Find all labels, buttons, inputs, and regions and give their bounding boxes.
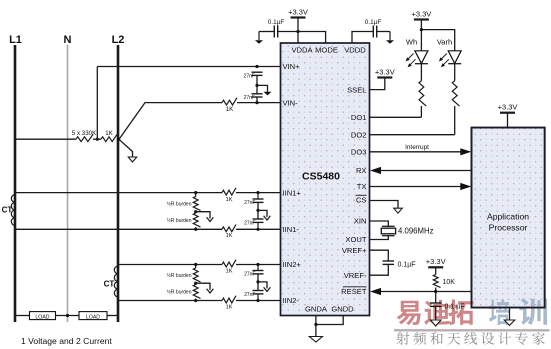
wire burden mid ground — [196, 212, 210, 218]
wire VREF- — [370, 264, 389, 275]
wire LED supply drop — [420, 20, 422, 51]
wire processor supply — [507, 113, 509, 128]
wire rail to MODE — [278, 32, 326, 44]
svg-text:0.1µF: 0.1µF — [398, 261, 416, 268]
wire supply to R6 — [435, 267, 437, 274]
svg-text:½R burden: ½R burden — [167, 217, 192, 224]
resistor R5 Varh — [452, 81, 459, 106]
svg-text:Application: Application — [487, 212, 529, 222]
wire LOAD1 to N — [56, 315, 80, 317]
wire R6 to RESET net — [435, 288, 437, 292]
svg-text:CT: CT — [2, 206, 13, 215]
wire cap mid to ground — [257, 85, 268, 91]
ground CS — [394, 208, 403, 213]
power +3.3V processor — [500, 112, 515, 114]
svg-text:1K: 1K — [226, 106, 234, 113]
wire R4 to DO1 — [420, 106, 422, 117]
power +3.3V main — [291, 16, 306, 18]
resistor R12 1K IIN2- — [222, 296, 236, 303]
resistor R13 half burden — [195, 265, 197, 269]
wire L1 to LOAD1 — [15, 315, 30, 317]
svg-text:+3.3V: +3.3V — [426, 257, 446, 266]
wire C4 to ground — [377, 31, 390, 33]
capacitor C9 27nF IIN2+ — [257, 265, 259, 271]
svg-text:Varh: Varh — [437, 38, 452, 47]
wire IIN1+ a — [15, 192, 222, 194]
svg-text:1K: 1K — [226, 197, 233, 203]
wire CS to ground — [370, 201, 399, 209]
resistor R7 1K IIN1+ — [222, 188, 236, 195]
wire IIN2- a — [118, 300, 222, 302]
wire RX — [380, 170, 472, 172]
resistor R6 10K — [433, 275, 440, 288]
wire L2 diagonal to ground — [120, 140, 133, 157]
svg-text:GNDD: GNDD — [331, 305, 354, 314]
svg-text:N: N — [64, 34, 72, 46]
wire processor ground stub — [509, 308, 511, 321]
node cap3 top — [256, 263, 259, 266]
node burden2 top — [194, 263, 197, 266]
node VIN cap mid — [255, 84, 258, 87]
svg-text:IIN2+: IIN2+ — [283, 260, 302, 269]
wire C2 to VIN- node — [256, 97, 258, 103]
svg-text:27nF: 27nF — [244, 74, 255, 80]
svg-text:CS: CS — [356, 196, 367, 205]
wire LOAD2 to L2 — [107, 315, 118, 317]
wire IIN2+ a — [118, 264, 222, 266]
CT1 current transformer coil — [11, 195, 15, 203]
node burden mid — [194, 210, 197, 213]
svg-text:CT: CT — [104, 280, 115, 289]
svg-text:+3.3V: +3.3V — [288, 7, 308, 16]
svg-text:1K: 1K — [226, 268, 233, 274]
power +3.3V LEDs — [414, 18, 429, 20]
svg-text:IIN2-: IIN2- — [283, 296, 300, 305]
svg-text:DO3: DO3 — [351, 148, 367, 157]
load block LOAD1 — [30, 312, 56, 320]
svg-text:DO1: DO1 — [351, 113, 367, 122]
wire TX — [370, 186, 463, 188]
resistor R1 5x330K — [76, 134, 93, 141]
LED D2 Varh — [448, 51, 461, 64]
capacitor C6 0.1uF reset — [430, 302, 442, 304]
svg-text:VIN-: VIN- — [283, 98, 299, 107]
svg-text:IIN1-: IIN1- — [283, 225, 300, 234]
resistor R11 1K IIN2+ — [222, 260, 236, 267]
node VIN+ cap junction — [255, 65, 258, 68]
wire ground drop — [315, 325, 317, 337]
svg-text:XIN: XIN — [354, 217, 367, 226]
wire GNDD stub — [316, 316, 343, 325]
wire IIN2- b — [236, 300, 281, 302]
watermark subtitle text — [396, 332, 544, 345]
node IIN1 cap mid — [256, 209, 259, 212]
svg-text:27nF: 27nF — [244, 95, 255, 101]
node burden top — [194, 191, 197, 194]
resistor R4 Wh — [419, 81, 426, 106]
wire C9 to C10 — [257, 274, 259, 291]
wire burden mid a — [195, 211, 197, 214]
svg-text:½R burden: ½R burden — [167, 272, 192, 279]
wire L1 line — [14, 45, 17, 322]
wire VDDA rail — [259, 31, 274, 33]
svg-text:VREF-: VREF- — [344, 271, 367, 280]
wire L1 to R1 — [15, 138, 76, 140]
ground burden1 — [207, 217, 214, 221]
svg-text:VIN+: VIN+ — [283, 62, 301, 71]
wire DO2 — [370, 134, 455, 136]
resistor R9 half burden — [195, 193, 197, 197]
node LED supply split — [420, 28, 423, 31]
capacitor C2 27nF VIN- — [252, 93, 263, 95]
svg-text:1K: 1K — [226, 304, 233, 310]
node burden2 bottom — [194, 299, 197, 302]
load block LOAD2 — [79, 312, 107, 320]
wire R1 to R2 — [93, 138, 101, 140]
wire C6 to ground — [435, 306, 437, 320]
svg-text:RESET: RESET — [341, 287, 367, 296]
svg-text:LOAD: LOAD — [35, 314, 49, 320]
LED D1 Wh — [415, 51, 428, 64]
svg-text:Wh: Wh — [406, 38, 417, 47]
node IIN2 cap mid — [256, 280, 259, 283]
ground burden2 — [207, 289, 214, 293]
svg-text:MODE: MODE — [315, 45, 338, 54]
ground IIN1 caps — [264, 216, 271, 220]
wire D1 to R4 — [420, 64, 422, 81]
wire C1 to C2 — [256, 75, 258, 93]
svg-text:27nF: 27nF — [244, 292, 255, 298]
wire C7 to C8 — [257, 202, 259, 219]
node cap4 bottom — [256, 299, 259, 302]
svg-text:½R burden: ½R burden — [167, 288, 192, 295]
svg-text:27nF: 27nF — [244, 200, 255, 206]
wire RESET — [380, 291, 472, 293]
node burden bottom — [194, 228, 197, 231]
svg-text:RX: RX — [356, 166, 367, 175]
svg-text:CS5480: CS5480 — [302, 171, 340, 183]
resistor R2 1K — [101, 134, 117, 141]
capacitor C10 27nF IIN2- — [253, 290, 264, 292]
node ground join — [314, 323, 317, 326]
svg-text:SSEL: SSEL — [347, 85, 366, 94]
capacitor C8 27nF IIN1- — [253, 218, 264, 220]
node RESET junction — [434, 290, 437, 293]
svg-text:VDDA: VDDA — [291, 45, 313, 54]
power +3.3V SSEL — [377, 76, 392, 78]
svg-text:DO2: DO2 — [351, 130, 367, 139]
ground processor — [504, 320, 515, 326]
svg-text:IIN1+: IIN1+ — [283, 188, 302, 197]
svg-text:0.1µF: 0.1µF — [365, 19, 382, 26]
svg-text:1K: 1K — [105, 130, 113, 137]
svg-text:VDDD: VDDD — [344, 45, 366, 54]
svg-text:27nF: 27nF — [244, 272, 255, 278]
capacitor C1 27nF VIN+ — [252, 71, 263, 73]
svg-text:+3.3V: +3.3V — [375, 67, 395, 76]
svg-text:Processor: Processor — [489, 223, 528, 233]
ground VIN cap mid — [264, 92, 272, 96]
svg-text:27nF: 27nF — [244, 220, 255, 226]
node cap2 bottom — [256, 228, 259, 231]
wire IIN1- a — [15, 228, 222, 230]
ground C3 — [258, 32, 260, 41]
power +3.3V reset — [428, 266, 443, 268]
ground divider — [128, 157, 137, 162]
IC U1 CS5480 body — [281, 43, 370, 316]
node VIN- cap junction — [255, 101, 258, 104]
wire XOUT — [370, 236, 389, 240]
watermark logo text — [397, 298, 547, 325]
wire DO3 interrupt — [370, 151, 463, 153]
svg-text:VREF+: VREF+ — [342, 246, 367, 255]
svg-text:Interrupt: Interrupt — [405, 144, 429, 151]
svg-text:TX: TX — [357, 182, 367, 191]
node VDDA supply — [296, 30, 299, 33]
application processor border redraw — [472, 128, 545, 308]
svg-text:XOUT: XOUT — [345, 235, 366, 244]
wire N line — [67, 45, 69, 322]
ground chip — [309, 337, 322, 343]
watermark underline — [394, 329, 550, 331]
wire VREF+ — [370, 250, 389, 261]
node burden2 mid — [194, 282, 197, 285]
node L2 junction — [117, 138, 120, 141]
ground IIN2 caps — [264, 287, 271, 291]
resistor R8 1K IIN1- — [222, 225, 236, 232]
svg-text:0.1µF: 0.1µF — [268, 19, 285, 26]
node N load junction — [66, 314, 69, 317]
capacitor C3 0.1uF VDDA — [273, 26, 275, 38]
wire XIN — [370, 221, 389, 226]
wire VIN+ net — [97, 66, 280, 68]
ground C6 — [430, 320, 441, 326]
capacitor C4 0.1uF VDDD — [372, 26, 374, 38]
wire DO1 — [370, 116, 422, 118]
svg-text:+3.3V: +3.3V — [411, 9, 431, 18]
capacitor C5 0.1uF VREF — [383, 260, 395, 262]
svg-text:5 x 330K: 5 x 330K — [72, 130, 97, 137]
wire R2 to L2 — [117, 138, 119, 140]
wire R3 to VIN- pin — [237, 102, 281, 104]
wire RESET to C6 — [435, 292, 437, 304]
crystal Y1 4.096MHz — [382, 225, 395, 227]
node cap1 top — [256, 191, 259, 194]
svg-text:+3.3V: +3.3V — [498, 103, 518, 112]
svg-text:½R burden: ½R burden — [167, 200, 192, 207]
wire R5 to DO2 — [454, 106, 456, 135]
wire IIN1- b — [236, 228, 281, 230]
wire IIN2+ b — [236, 264, 281, 266]
svg-text:4.096MHz: 4.096MHz — [398, 227, 434, 236]
wire L2 line — [117, 45, 120, 322]
wire +3.3V drop — [297, 18, 299, 44]
svg-text:1K: 1K — [226, 233, 233, 239]
wire L2 diagonal to VIN- — [120, 103, 223, 139]
svg-text:10K: 10K — [443, 279, 456, 286]
resistor R3 1K VIN- — [222, 98, 237, 105]
node divider tap — [96, 138, 99, 141]
svg-text:GNDA: GNDA — [305, 305, 328, 314]
wire GNDA stub — [315, 316, 317, 325]
wire IIN1 cap mid ground — [258, 210, 267, 216]
application processor U2 box — [472, 128, 545, 308]
wire to Varh LED — [421, 30, 454, 51]
svg-text:L2: L2 — [112, 34, 125, 46]
wire tap vertical — [96, 67, 98, 140]
svg-text:0.1 µF: 0.1 µF — [445, 304, 465, 311]
CT2 current transformer coil — [114, 266, 118, 274]
wire SSEL — [370, 78, 385, 90]
wire burden2 mid a — [195, 282, 197, 285]
svg-text:LOAD: LOAD — [86, 314, 100, 320]
resistor R14 half burden — [193, 285, 200, 299]
wire burden2 mid ground — [196, 283, 210, 289]
svg-text:L1: L1 — [9, 34, 22, 46]
capacitor C7 27nF IIN1+ — [257, 193, 259, 199]
wire D2 to R5 — [454, 64, 456, 81]
wire IIN1+ b — [236, 192, 281, 194]
wire IIN2 cap mid ground — [258, 282, 267, 288]
resistor R10 half burden — [193, 213, 200, 227]
wire VDDD stub — [352, 32, 373, 44]
svg-text:1 Voltage and 2 Current: 1 Voltage and 2 Current — [21, 336, 112, 346]
ground C4 — [389, 32, 391, 41]
